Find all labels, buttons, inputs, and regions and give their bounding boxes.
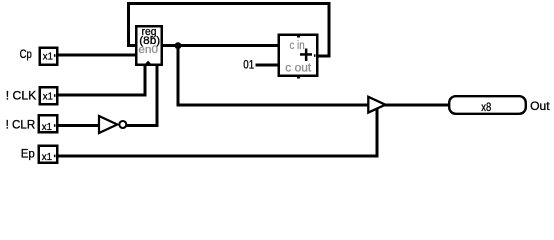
register U1 (reg 8b) bbox=[136, 26, 162, 65]
wire inverter out horizontal bbox=[127, 124, 159, 127]
junction node bbox=[175, 42, 182, 49]
wire register output to adder c-in bbox=[161, 44, 280, 47]
input port !CLR (x1 box) bbox=[39, 115, 58, 133]
inverter G1 bbox=[99, 116, 117, 133]
inverter bubble bbox=[119, 121, 126, 128]
svg-text:x1: x1 bbox=[43, 51, 54, 62]
output port x8 (rounded box) bbox=[449, 96, 526, 114]
svg-text:Cp: Cp bbox=[20, 48, 32, 61]
wire buffer enable vertical bbox=[376, 107, 379, 157]
feedback wire top horizontal bbox=[127, 2, 331, 5]
wire Cp to register bbox=[56, 54, 137, 57]
svg-text:c out: c out bbox=[285, 62, 312, 74]
svg-text:x1: x1 bbox=[43, 91, 54, 102]
input port Cp (x1 box) bbox=[40, 48, 58, 65]
input port !CLK (x1 box) bbox=[40, 87, 58, 104]
svg-text:x1: x1 bbox=[42, 122, 53, 133]
svg-text:Ep: Ep bbox=[21, 148, 35, 161]
svg-text:x1: x1 bbox=[42, 152, 53, 163]
adder U2 (c in / c out / +) bbox=[279, 35, 318, 79]
wire 01 to adder c-in low pin bbox=[256, 64, 280, 67]
wire adder output to feedback bbox=[316, 55, 331, 58]
wire !CLK vertical to register clock pin bbox=[144, 64, 147, 97]
clock wedge on register bottom edge bbox=[145, 61, 152, 65]
svg-text:Out: Out bbox=[530, 99, 550, 113]
input port Ep (x1 box) bbox=[39, 146, 58, 163]
svg-text:! CLR: ! CLR bbox=[6, 119, 36, 132]
svg-text:01: 01 bbox=[243, 60, 254, 72]
svg-text:! CLK: ! CLK bbox=[6, 89, 37, 102]
wire Ep horizontal bbox=[56, 154, 379, 157]
svg-text:en0: en0 bbox=[138, 44, 158, 56]
wire !CLR vertical to register pin bbox=[156, 64, 159, 128]
feedback wire right vertical bbox=[328, 2, 331, 58]
feedback wire left vertical bbox=[127, 2, 130, 47]
wire junction vertical down bbox=[177, 45, 180, 107]
wire !CLR to inverter bbox=[56, 124, 100, 127]
wire buffer output to x8 port bbox=[383, 104, 450, 107]
tri-state buffer G2 bbox=[368, 97, 385, 113]
svg-text:c in: c in bbox=[290, 40, 305, 52]
wire junction to buffer bbox=[177, 104, 370, 107]
wire !CLK horizontal bbox=[56, 94, 147, 97]
svg-text:x8: x8 bbox=[481, 102, 491, 114]
feedback wire into register D input bbox=[127, 44, 137, 47]
